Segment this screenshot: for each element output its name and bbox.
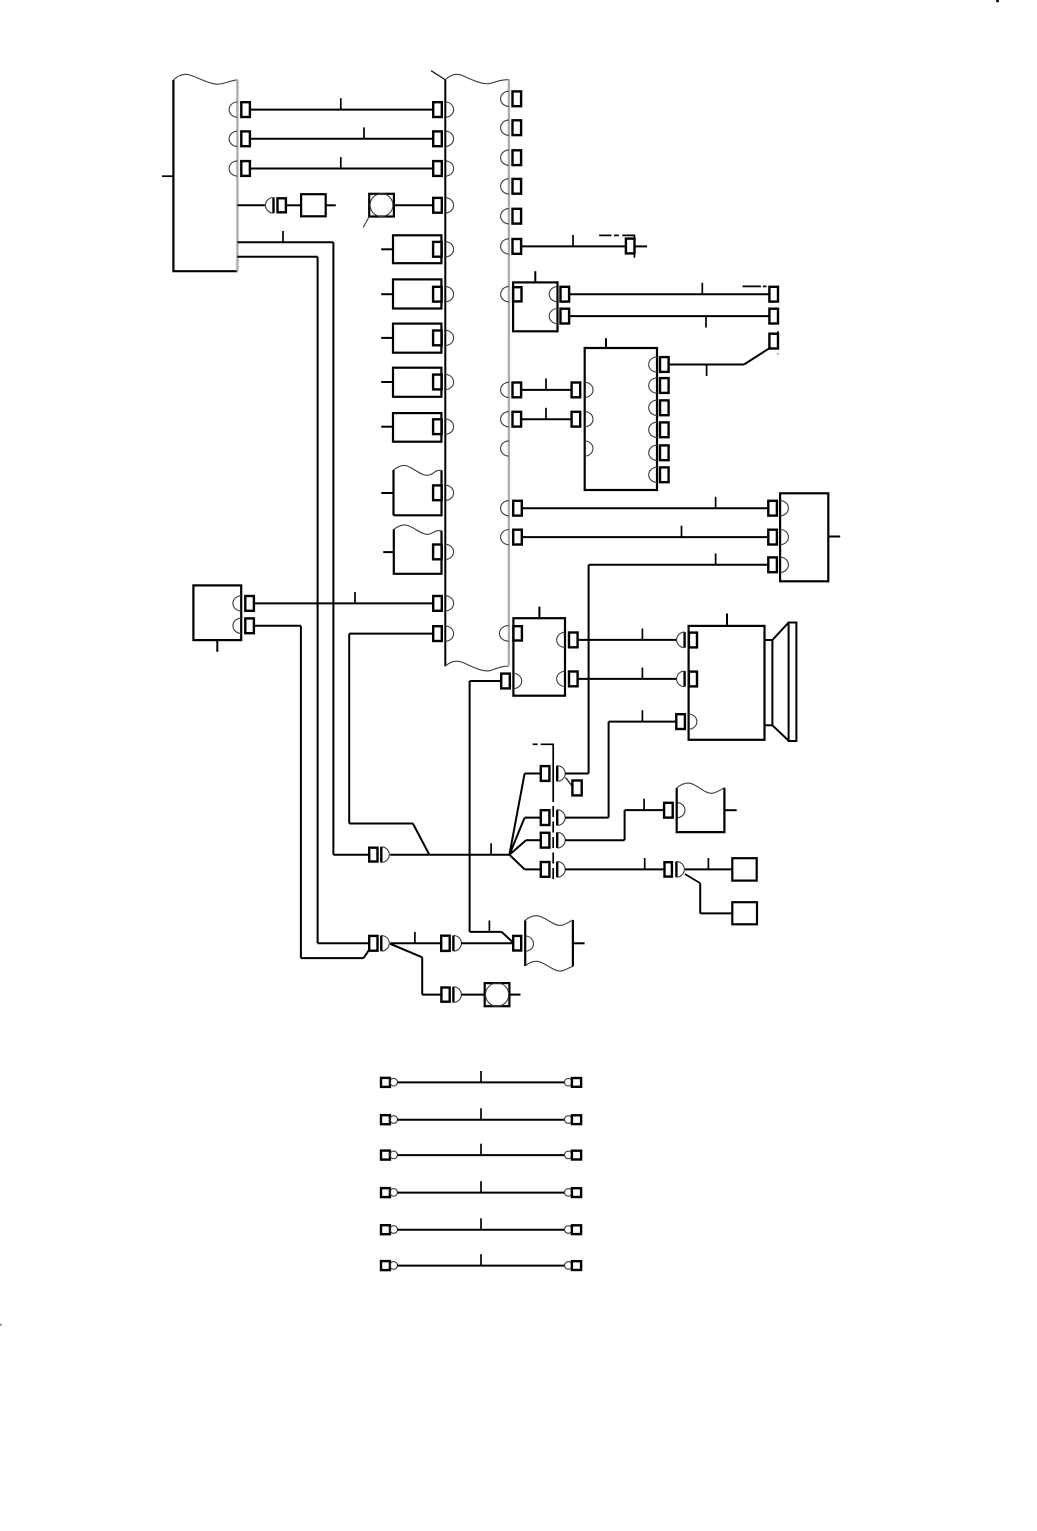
connector pair P3: [664, 803, 685, 818]
IC U2 box: [585, 338, 657, 490]
page mark bottom left: [0, 1324, 2, 1326]
connector CN3 pin 3: [769, 334, 778, 349]
relay K6 pin 1: [768, 501, 788, 516]
junction strip B pin 2 (unconnected): [501, 120, 521, 135]
wire bullet B4 to motor M2: [461, 994, 485, 996]
connector CN4 (dash-dot outline): [533, 744, 554, 881]
device box N1 (torn-edge): [677, 783, 737, 832]
device box X7 pin to strip A: [433, 544, 453, 559]
wire P4 to device S1: [685, 858, 732, 869]
relay K1 box: [381, 235, 441, 263]
module U3 box: [513, 607, 565, 696]
module U3 pin C: [557, 632, 578, 647]
connector CN2 (dash-dot outline): [599, 235, 634, 257]
connector CN1 pin 3: [229, 161, 250, 176]
device box X6 pin to strip A: [433, 485, 454, 500]
wire stub from relay K0: [326, 204, 336, 206]
module U4 pin 2: [233, 618, 254, 633]
junction strip B pin 8: [501, 412, 521, 427]
jumper wire W6 with ring terminals: [381, 1254, 581, 1270]
wire P4 branch to device S2: [685, 874, 732, 913]
IC U2 right pin 5: [649, 445, 669, 460]
wire connector CN3 pin 3 to IC U2 pin 1: [668, 348, 769, 376]
wire bullet B2 branch down to bullet B4: [390, 944, 441, 995]
relay K2 box: [381, 279, 441, 308]
wire CN1 pin 1 to junction strip A: [250, 98, 433, 109]
junction strip B pin 3 (unconnected): [501, 150, 521, 165]
relay K3 box: [381, 324, 441, 353]
jumper wire W4 with ring terminals: [381, 1181, 581, 1197]
connector CN2 pin: [626, 239, 635, 254]
module U3 pin A (to strip B): [499, 626, 522, 642]
bullet connector B1: [369, 847, 389, 863]
wire J1 to relay K0: [286, 204, 301, 206]
bullet connector B2: [369, 935, 389, 951]
module U1 pin A (to strip B): [501, 287, 522, 302]
jumper wire W2 with ring terminals: [381, 1108, 581, 1124]
bullet connector B4: [441, 987, 461, 1003]
wire strip B pin 10 to relay K6: [522, 497, 769, 508]
connector CN3 pin 1: [769, 287, 778, 302]
module U4 pin 1: [233, 596, 254, 611]
wire relay K6 pin 3 to connector CN4 pin 1: [589, 553, 769, 773]
jumper wire W3 with ring terminals: [381, 1144, 581, 1160]
wire CN1 to bullet B1 (down via x=333): [237, 231, 369, 855]
relay K6 pin 3: [768, 557, 788, 572]
motor M1 (circle in square with lever): [363, 194, 394, 228]
connector CN1 body (torn-edge box): [173, 74, 237, 271]
connector CN1 pin 1: [229, 102, 250, 117]
connector CN4 pin 2: [541, 810, 565, 826]
wire strip B pin 8 to IC U2: [521, 408, 572, 419]
wire CN1 pin 3 to junction strip A: [250, 157, 433, 168]
terminal T1 on CN4 pin 1: [566, 778, 582, 796]
junction strip B pin 7: [501, 382, 522, 397]
relay K2 pin to strip A: [433, 287, 453, 302]
wire module U4 pin 2 down to bullet B2: [254, 626, 369, 958]
relay K3 pin to strip A: [433, 330, 453, 345]
speaker LS1 magnet and cone: [765, 623, 797, 742]
wire U1 pin C to connector CN3: [569, 316, 769, 327]
module U3 pin B: [501, 673, 521, 688]
module U1 pin B: [549, 287, 569, 302]
wire connector CN4 pin 1 up to relay K6: [565, 773, 589, 775]
connector CN3 pin 2: [769, 309, 778, 324]
IC U2 left pin 7: [572, 382, 593, 397]
connector pair P2: [677, 671, 697, 687]
wire stub from connector CN2: [634, 245, 647, 247]
junction strip B pin 1 (unconnected): [501, 91, 521, 106]
jumper wire W1 with ring terminals: [381, 1071, 581, 1087]
wire stub on left edge of connector CN1: [162, 175, 173, 177]
wire strip B pin 7 to IC U2: [521, 379, 572, 390]
wire connector CN4 pin 4 to terminal pair P4: [565, 858, 665, 869]
relay K1 pin to strip A: [433, 242, 454, 257]
wire bullet B3 to device box N2: [461, 942, 513, 944]
relay K0 box: [301, 194, 326, 216]
junction strip B (torn-edge bus, right): [508, 80, 510, 666]
IC U2 right pin 3: [649, 400, 669, 415]
node J1 fan wires: [509, 774, 541, 870]
relay K5 pin to strip A: [433, 419, 453, 434]
module U3 pin D: [557, 671, 578, 686]
wire motor M1 to junction strip A: [394, 204, 433, 206]
wire CN1 to inline connector J1: [237, 204, 265, 206]
connector pair P4: [665, 862, 685, 878]
junction strip B pin 4 (unconnected): [501, 179, 521, 194]
connector pair P5: [513, 936, 533, 951]
connector CN4 pin 3: [541, 832, 565, 848]
wire U1 pin B to connector CN3: [569, 283, 769, 294]
junction strip A pin 4: [433, 198, 453, 213]
wire bullet B2 to bullet pair B3: [390, 932, 441, 943]
page mark top right: [996, 0, 999, 2]
jumper wire W5 with ring terminals: [381, 1218, 581, 1234]
wire speaker LS1 pin 3 down to connector CN4 pin 2: [609, 710, 677, 817]
junction strip A pin 3: [433, 161, 453, 176]
device box X6 (torn-edge): [381, 465, 441, 515]
junction strip B pin 9 (unconnected): [501, 441, 509, 456]
device box X7 (torn-edge): [383, 525, 441, 574]
junction strip B pin 10: [501, 501, 522, 516]
speaker LS1 pin 3: [676, 714, 697, 729]
wire strip A pin 13 down to junction J1 node: [349, 634, 433, 855]
junction strip B pin 11: [501, 530, 522, 545]
module U4 box: [193, 585, 241, 651]
relay K4 pin to strip A: [433, 374, 453, 389]
connector CN4 pin 1: [541, 766, 565, 782]
wire module U3 pin D to speaker LS1: [578, 668, 677, 679]
relay K6 pin 2: [768, 530, 788, 545]
wire strip B pin 11 to relay K6: [522, 526, 769, 537]
wire connector CN4 pin 2 to speaker branch: [565, 817, 609, 819]
relay K6 box: [780, 493, 840, 581]
connector CN3 (dash-dot outline): [743, 286, 778, 354]
module U1 pin C: [549, 309, 569, 324]
device S1 box: [732, 858, 756, 880]
junction strip A pin 1: [433, 102, 453, 117]
IC U2 right pin 2: [649, 378, 669, 393]
module U1 box: [513, 271, 557, 331]
inline connector J1 (bullet pair): [266, 198, 286, 214]
device S2 box: [732, 902, 757, 924]
motor M2 (circle in square): [485, 983, 521, 1006]
wire module U4 pin 1 to strip A: [254, 592, 433, 603]
IC U2 right pin 6: [649, 467, 669, 482]
wire module U3 pin C to speaker LS1: [578, 629, 677, 640]
junction strip A (torn-edge bus, left): [431, 71, 509, 671]
relay K5 box: [381, 413, 441, 442]
relay K4 box: [381, 368, 441, 397]
connector CN4 pin 4: [541, 862, 565, 878]
wire module U3 pin B down to junction J2: [470, 681, 514, 943]
wire CN1 to bullet B2 (down via x=318): [237, 257, 369, 944]
IC U2 right pin 1: [649, 357, 669, 372]
junction strip A pin 13: [433, 626, 453, 641]
connector CN1 pin 2: [229, 131, 250, 146]
junction strip A pin 2: [433, 131, 453, 146]
IC U2 right pin 4: [649, 422, 669, 437]
wire connector CN4 pin 3 to device box N1: [565, 799, 665, 841]
IC U2 left pin 9 (unconnected): [585, 441, 593, 456]
wire strip B pin 6 to connector CN2: [521, 235, 626, 246]
connector pair P1: [677, 632, 697, 648]
bullet connector B3: [441, 935, 461, 951]
IC U2 left pin 8: [572, 412, 593, 427]
junction strip B pin 6: [501, 239, 521, 254]
junction strip B pin 5 (unconnected): [501, 209, 521, 224]
wire bullet B1 to junction J1 node: [390, 843, 509, 854]
device box N2 (torn-edge): [525, 916, 584, 971]
speaker LS1 body: [689, 614, 765, 740]
wire CN1 pin 2 to junction strip A: [250, 127, 433, 138]
junction strip A pin 12: [433, 596, 453, 611]
